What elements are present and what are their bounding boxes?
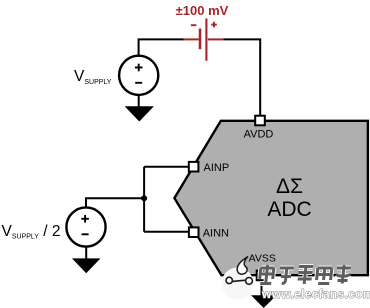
wire: to AINN bbox=[144, 231, 189, 233]
voltage source V2 VSUPPLY/2 bbox=[66, 207, 105, 246]
wire: VSUPPLY top to battery (black left segment) bbox=[139, 39, 184, 56]
battery B1 ±100 mV (red offset source) bbox=[183, 19, 223, 61]
svg-text:AINN: AINN bbox=[203, 227, 229, 239]
wire: AVSS to ground bbox=[261, 280, 263, 296]
wire: V2 top to junction bbox=[86, 198, 144, 207]
wire: battery to AVDD pin bbox=[223, 39, 260, 116]
watermark text bottom (pseudo CJK) bbox=[259, 265, 351, 284]
pin AINP bbox=[189, 162, 199, 172]
watermark logo badge (bottom) bbox=[222, 257, 254, 300]
svg-text:AVSS: AVSS bbox=[249, 252, 276, 264]
pin AVDD bbox=[255, 116, 265, 126]
svg-text:www.elecfans.com: www.elecfans.com bbox=[261, 287, 370, 301]
svg-text:AINP: AINP bbox=[204, 162, 230, 174]
ground (under V1) bbox=[125, 106, 154, 121]
pin AVSS bbox=[257, 271, 267, 281]
svg-text:ADC: ADC bbox=[267, 198, 311, 221]
wire: V2 to ground bbox=[85, 247, 87, 260]
svg-text:ΔΣ: ΔΣ bbox=[276, 175, 303, 198]
svg-text:±100 mV: ±100 mV bbox=[176, 3, 229, 18]
wire: V1 to ground bbox=[138, 95, 140, 107]
wire: to AINP bbox=[144, 166, 189, 168]
svg-text:AVDD: AVDD bbox=[244, 129, 274, 141]
node junction bbox=[141, 195, 147, 201]
voltage source V1 VSUPPLY bbox=[119, 56, 158, 95]
ground (under V2) bbox=[72, 258, 101, 273]
ground (under AVSS) bbox=[251, 295, 276, 308]
wire: branch vertical bbox=[143, 167, 145, 232]
adc U1 (delta-sigma ADC body) bbox=[174, 121, 368, 275]
pin AINN bbox=[189, 227, 199, 237]
